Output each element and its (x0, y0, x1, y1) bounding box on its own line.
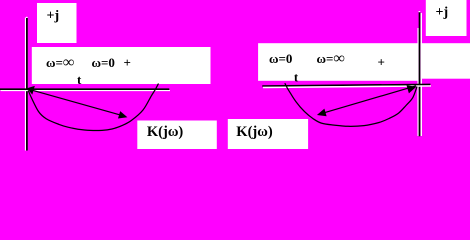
box K(jw) (right) (228, 119, 308, 149)
white dot at top of right vertical axis (419, 11, 421, 12)
svg-text:+: + (124, 55, 131, 70)
horizontal axis white shadow (left) (1, 90, 171, 92)
svg-text:t: t (77, 72, 82, 87)
box +j (right) (426, 0, 467, 36)
box omega labels (left) (32, 47, 211, 84)
origin arrowhead (right) (407, 85, 417, 93)
svg-text:K(jω): K(jω) (236, 124, 273, 140)
svg-text:ω=∞: ω=∞ (46, 54, 74, 71)
box omega labels (right) (258, 43, 418, 81)
svg-text:+j: +j (436, 5, 449, 20)
horizontal axis (left) (0, 88, 169, 90)
chord arrowhead (left) (118, 111, 127, 118)
hodograph arc (left) (28, 84, 158, 131)
box white area right of axis (right) (421, 43, 470, 78)
svg-text:+: + (378, 55, 385, 70)
chord arrowhead (right) (317, 109, 327, 117)
svg-text:ω=0: ω=0 (92, 55, 115, 70)
hodograph arc (right) (285, 83, 417, 126)
chord line (right) (324, 86, 416, 113)
svg-text:K(jω): K(jω) (147, 124, 184, 140)
svg-text:ω=0: ω=0 (269, 51, 292, 66)
svg-text:+j: +j (47, 9, 60, 24)
white dot at top of left vertical axis (26, 17, 28, 18)
box +j (left) (37, 3, 77, 43)
horizontal axis white shadow (right) (263, 86, 431, 88)
box K(jw) (left) (137, 121, 217, 150)
origin arrowhead (left) (27, 86, 35, 95)
horizontal axis (right) (262, 84, 430, 86)
svg-text:ω=∞: ω=∞ (317, 50, 345, 67)
vertical axis (right) (419, 12, 421, 136)
vertical axis (left) (26, 18, 28, 151)
vertical axis white highlight (left) (25, 18, 27, 151)
chord line (left) (29, 89, 121, 115)
vertical axis white highlight left side (right) (417, 28, 419, 136)
svg-text:t: t (294, 70, 299, 85)
vertical axis white highlight right side (right) (420, 13, 422, 136)
